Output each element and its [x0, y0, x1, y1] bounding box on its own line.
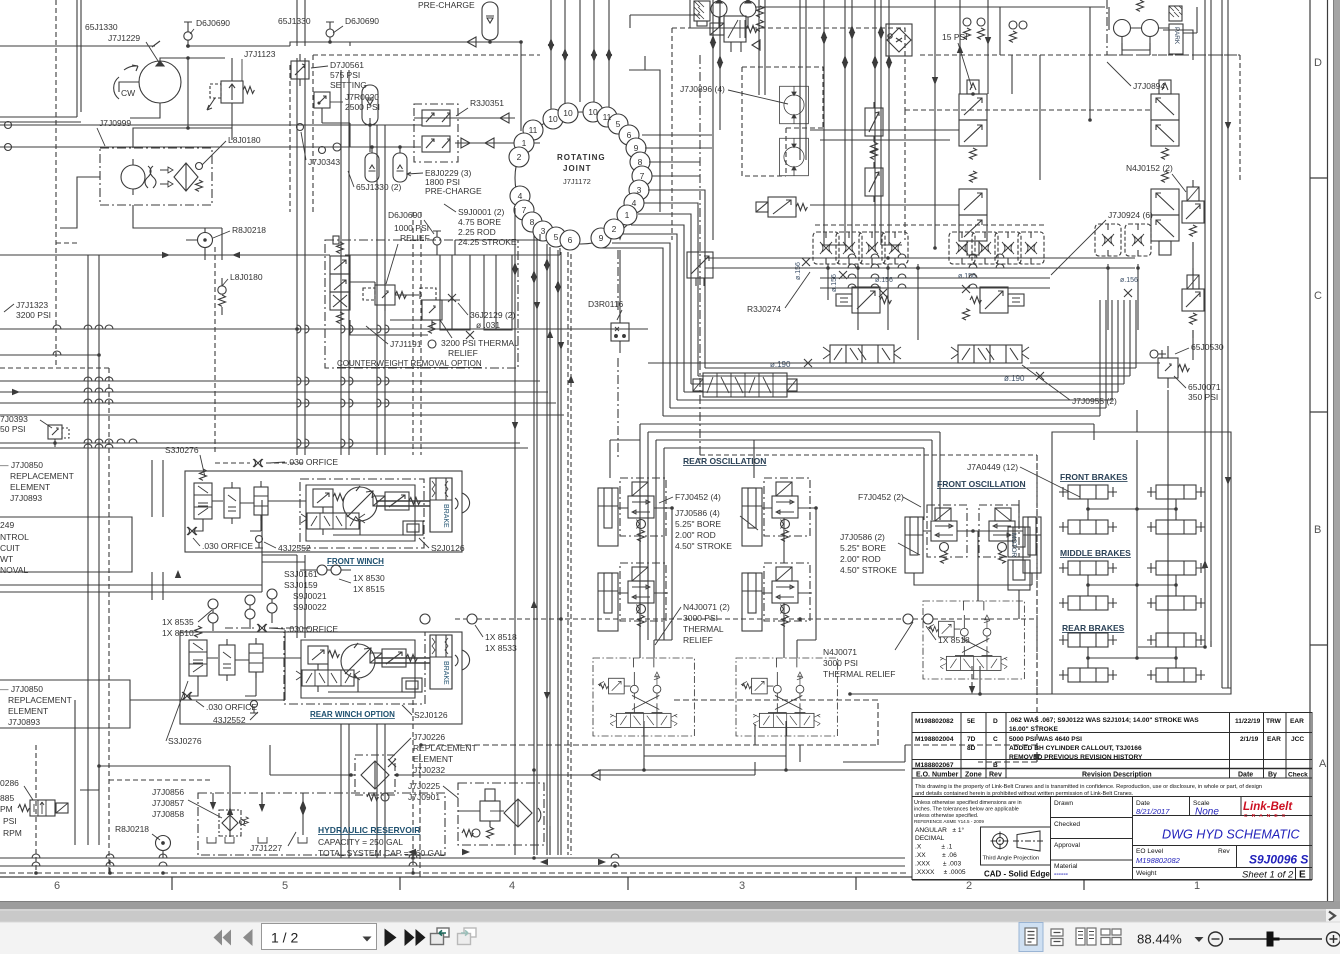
svg-text:65J1330: 65J1330 [278, 16, 311, 26]
svg-text:S9J0096 S: S9J0096 S [1249, 853, 1308, 867]
pump [343, 487, 377, 521]
15 PSI check pair [963, 18, 971, 26]
second valve below right col [836, 287, 891, 313]
stack valve left [330, 236, 350, 323]
filter diamond in box (top) [886, 24, 912, 56]
reservoir box J7J1227 with filter [80, 766, 445, 855]
svg-text:.030 ORFICE: .030 ORFICE [287, 457, 338, 467]
svg-text:REPLACEMENT: REPLACEMENT [8, 695, 72, 705]
svg-text:Sheet 1 of 2: Sheet 1 of 2 [1242, 870, 1294, 881]
sheet outer edge right [1327, 0, 1329, 901]
spring stack right of it [757, 6, 764, 17]
svg-text:1: 1 [1194, 880, 1200, 892]
svg-text:FRONT OSCILLATION: FRONT OSCILLATION [937, 479, 1026, 489]
zone ticks right [1310, 178, 1328, 645]
wires relief to joint [414, 113, 515, 123]
solenoid valve mid-left [756, 197, 807, 217]
wire bundle from motors to valves [810, 130, 959, 245]
svg-text:J7J1229: J7J1229 [108, 33, 140, 43]
top mid dashed manifold frame [672, 28, 905, 240]
wire left dashed riser [0, 0, 110, 619]
svg-text:885: 885 [0, 793, 14, 803]
svg-text:4: 4 [518, 191, 523, 201]
front osc left unit [905, 505, 978, 573]
check L8J0180 lower [218, 278, 226, 315]
svg-text:10: 10 [548, 114, 558, 124]
svg-text:DECIMAL: DECIMAL [915, 835, 945, 842]
svg-text:E: E [1299, 870, 1306, 881]
svg-text:ANGULAR ± 1°: ANGULAR ± 1° [915, 826, 964, 834]
svg-text:L8J0180: L8J0180 [230, 272, 263, 282]
svg-text:M198802082: M198802082 [915, 718, 954, 725]
svg-text:JOINT: JOINT [563, 164, 592, 173]
svg-text:5000 PSI WAS 4640 PSI: 5000 PSI WAS 4640 PSI [1009, 736, 1082, 743]
svg-text:1X 8535: 1X 8535 [162, 617, 194, 627]
svg-text:3200 PSI THERMAL: 3200 PSI THERMAL [441, 338, 519, 348]
svg-text:6: 6 [54, 880, 60, 892]
orifice row with dashes [813, 225, 1045, 264]
R3J0351 dual relief block [414, 0, 1030, 162]
svg-text:2: 2 [612, 224, 617, 234]
table h lines [912, 733, 1312, 797]
svg-text:D: D [993, 718, 998, 725]
accumulator J7R0020 capsule [362, 85, 378, 125]
svg-text:1X 8510: 1X 8510 [162, 628, 194, 638]
verticals through hump rows [828, 264, 1138, 340]
right cluster connect to brakes trunk [1138, 242, 1231, 688]
last page btn [405, 929, 415, 946]
main block dividers [1051, 797, 1133, 881]
second staircase tier to lower area [640, 424, 1094, 640]
thermal relief 3200 [420, 288, 442, 348]
second pair circles right on dashed bus [903, 614, 913, 624]
dashed pilot lines bottom-left [109, 619, 213, 874]
wire: vertical trunk pair right of joint [820, 140, 950, 245]
svg-text:1: 1 [522, 138, 527, 148]
svg-text:This drawing is the property o: This drawing is the property of Link-Bel… [915, 784, 1262, 790]
svg-text:NOVAL: NOVAL [0, 565, 28, 575]
65J0530 + 65J0071 350psi relief [1150, 346, 1189, 388]
cylinders S9J0001 [440, 255, 470, 330]
svg-text:FRONT BRAKES: FRONT BRAKES [1060, 472, 1128, 482]
svg-text:4: 4 [632, 198, 637, 208]
right long verticals [1205, 0, 1228, 688]
joint outgoing bottom fan to right-down [600, 190, 705, 416]
third angle projection icon [991, 831, 1045, 851]
svg-text:10: 10 [588, 107, 598, 117]
svg-text:J7J0586 (2): J7J0586 (2) [840, 532, 885, 542]
svg-text:4.75 BORE: 4.75 BORE [458, 217, 501, 227]
svg-text:J7J0924 (6): J7J0924 (6) [1108, 210, 1153, 220]
J7R0020 valve [314, 92, 970, 320]
svg-text:J7J0232: J7J0232 [413, 765, 445, 775]
svg-text:6: 6 [627, 130, 632, 140]
wires connecting center bundle down [534, 770, 550, 855]
next page btn [385, 929, 397, 947]
gauge R8J0218 [198, 233, 213, 248]
svg-text:M198802082: M198802082 [1136, 856, 1181, 865]
svg-text:R3J0351: R3J0351 [470, 98, 504, 108]
svg-text:2.00" ROD: 2.00" ROD [675, 530, 716, 540]
svg-text:WT: WT [0, 554, 13, 564]
svg-text:NTROL: NTROL [0, 532, 29, 542]
svg-text:.XXX ± .003: .XXX ± .003 [915, 861, 961, 868]
svg-text:RPM: RPM [3, 828, 22, 838]
wire pump outlet [130, 58, 225, 118]
top motor circles pair [711, 1, 727, 17]
svg-text:5: 5 [282, 880, 288, 892]
junction dots sprinkle [186, 40, 1207, 868]
svg-text:R3J0274: R3J0274 [747, 304, 781, 314]
svg-text:S3J0276: S3J0276 [168, 736, 202, 746]
D6J0690 node [433, 237, 441, 245]
svg-text:J7J0893: J7J0893 [8, 717, 40, 727]
svg-text:50 PSI: 50 PSI [0, 424, 26, 434]
svg-text:M198802004: M198802004 [915, 736, 954, 743]
front winch assembly S2J0126 [185, 459, 470, 552]
svg-text:J7J1172: J7J1172 [563, 177, 591, 186]
svg-text:2/1/19: 2/1/19 [1240, 736, 1259, 743]
page input [262, 924, 377, 950]
svg-text:MOTOR: MOTOR [1010, 533, 1017, 557]
horizontal scrollbar track [0, 909, 1340, 922]
svg-text:.XXXX ± .0005: .XXXX ± .0005 [915, 869, 966, 876]
right solenoid valve mid [970, 287, 1024, 313]
svg-text:DWG HYD SCHEMATIC: DWG HYD SCHEMATIC [1162, 828, 1301, 842]
svg-text:3000 PSI: 3000 PSI [683, 613, 718, 623]
wire: top cluster horizontals [630, 7, 1105, 55]
svg-text:------: ------ [1054, 871, 1069, 878]
svg-text:F7J0452 (2): F7J0452 (2) [858, 492, 904, 502]
top middle hump bus rows [705, 254, 1140, 288]
svg-text:PSI: PSI [3, 816, 17, 826]
D7J0561 valve [291, 54, 309, 86]
svg-text:CW: CW [121, 88, 135, 98]
svg-text:REFERENCE ASME Y14.5 - 2009: REFERENCE ASME Y14.5 - 2009 [914, 819, 984, 824]
bottom frame line [0, 876, 912, 878]
orifice 36J2129 [448, 294, 456, 302]
right orifice row [949, 232, 975, 264]
svg-text:Date: Date [1238, 772, 1253, 779]
svg-text:43J2552: 43J2552 [278, 543, 311, 553]
svg-text:By: By [1268, 772, 1277, 779]
svg-text:J7J0226: J7J0226 [413, 732, 445, 742]
svg-text:16.00" STROKE: 16.00" STROKE [1009, 726, 1059, 733]
svg-text:N4J0071 (2): N4J0071 (2) [683, 602, 730, 612]
svg-text:Approval: Approval [1054, 842, 1081, 849]
svg-text:1000 PSI: 1000 PSI [394, 223, 429, 233]
svg-text:5E: 5E [967, 718, 976, 725]
filter J7J0226 [345, 755, 409, 801]
svg-text:JCC: JCC [1291, 736, 1304, 743]
svg-text:J7J1227: J7J1227 [250, 843, 282, 853]
third angle box [981, 827, 1051, 865]
pump J7J1229 [139, 61, 181, 103]
bottom arrows pairs [408, 849, 416, 855]
mirrored motors/valves [1151, 80, 1179, 159]
gauge R8J0218 bottom [156, 836, 171, 851]
svg-text:HYDRAULIC RESERVOIR: HYDRAULIC RESERVOIR [318, 825, 420, 835]
svg-text:D6J0690: D6J0690 [196, 18, 230, 28]
svg-text:5.25" BORE: 5.25" BORE [840, 543, 886, 553]
svg-text:TRW: TRW [1266, 718, 1282, 725]
svg-text:2.25 ROD: 2.25 ROD [458, 227, 496, 237]
svg-text:PM: PM [0, 804, 13, 814]
rear osc bottom wires [598, 721, 905, 770]
svg-text:Link-Belt: Link-Belt [1243, 801, 1293, 813]
svg-text:M188802067: M188802067 [915, 762, 954, 769]
svg-text:R8J0218: R8J0218 [232, 225, 266, 235]
clutch [455, 493, 470, 513]
svg-text:D6J0690: D6J0690 [388, 210, 422, 220]
left vertical feeders down [88, 255, 99, 660]
svg-text:2.00" ROD: 2.00" ROD [840, 554, 881, 564]
svg-text:ø.156: ø.156 [831, 274, 838, 292]
svg-text:EAR: EAR [1267, 736, 1281, 743]
svg-text:11: 11 [529, 125, 538, 135]
svg-text:249: 249 [0, 520, 14, 530]
svg-text:9: 9 [634, 143, 639, 153]
left-middle long horizontal buses [0, 248, 560, 255]
motors dashed enclosure [742, 67, 823, 176]
svg-text:ROTATING: ROTATING [557, 153, 606, 162]
svg-text:Third Angle Projection: Third Angle Projection [983, 856, 1040, 862]
svg-text:Revision Description: Revision Description [1082, 772, 1152, 779]
directional valves row y354 [823, 345, 901, 363]
svg-text:RELIEF: RELIEF [683, 635, 713, 645]
D6J0690 node mid [326, 29, 334, 37]
svg-text:3: 3 [541, 226, 546, 236]
svg-text:ELEMENT: ELEMENT [8, 706, 48, 716]
svg-text:MIDDLE BRAKES: MIDDLE BRAKES [1060, 548, 1131, 558]
viewer right strip [1333, 0, 1340, 954]
rear osc right unit pair [742, 478, 812, 546]
hatched block top [694, 1, 710, 26]
svg-text:J7J0999: J7J0999 [99, 118, 131, 128]
svg-text:Material: Material [1054, 863, 1078, 870]
svg-text:4: 4 [509, 880, 515, 892]
svg-text:A: A [1319, 758, 1327, 770]
prev page btn [243, 929, 253, 946]
wire left double riser [0, 0, 81, 122]
svg-text:11/22/19: 11/22/19 [1235, 718, 1261, 725]
left vertical bundle x295-420 [297, 0, 305, 46]
left small valves [194, 469, 212, 519]
svg-text:E.O. Number: E.O. Number [916, 772, 959, 779]
svg-text:9: 9 [599, 233, 604, 243]
svg-text:PRE-CHARGE: PRE-CHARGE [425, 186, 482, 196]
svg-text:8: 8 [638, 157, 643, 167]
svg-text:L8J0180: L8J0180 [228, 135, 261, 145]
svg-text:65J1330 (2): 65J1330 (2) [356, 182, 402, 192]
svg-text:SETTING: SETTING [330, 80, 367, 90]
svg-text:ø.156: ø.156 [795, 262, 802, 280]
svg-text:15 PSI: 15 PSI [942, 32, 968, 42]
orifice above rear winch [257, 624, 267, 632]
svg-text:350 PSI: 350 PSI [1188, 392, 1218, 402]
counterweight removal big wire down [521, 42, 623, 321]
svg-text:S3J0276: S3J0276 [165, 445, 199, 455]
svg-text:5: 5 [616, 119, 621, 129]
pilot dashed vertical x215 [214, 247, 216, 455]
J7J0856 labels + suction strainers [152, 787, 184, 819]
svg-text:J7J0955 (2): J7J0955 (2) [1072, 396, 1117, 406]
svg-text:RELIEF: RELIEF [448, 348, 478, 358]
front osc manifold [923, 601, 1024, 679]
svg-text:1 / 2: 1 / 2 [271, 930, 298, 946]
svg-text:5.25" BORE: 5.25" BORE [675, 519, 721, 529]
svg-text:3: 3 [637, 185, 642, 195]
svg-text:.X ± .1: .X ± .1 [915, 844, 953, 851]
svg-text:Weight: Weight [1136, 870, 1157, 877]
svg-text:S2J0126: S2J0126 [414, 710, 448, 720]
svg-text:BRAKE: BRAKE [442, 504, 449, 528]
svg-text:BRAKE: BRAKE [442, 661, 449, 685]
rear osc left unit pair [598, 478, 668, 546]
svg-text:CAD - Solid Edge: CAD - Solid Edge [984, 870, 1050, 879]
solenoid valve N-J0286 [18, 800, 68, 816]
orifice top [253, 459, 263, 467]
node D6J0690 top [184, 32, 192, 40]
second N4J0152 valve lower [1182, 268, 1204, 338]
svg-text:ø.190: ø.190 [1004, 374, 1025, 383]
bottom circle 43J2552 [256, 536, 263, 543]
park brake assembly J7J0894 [1107, 0, 1240, 55]
svg-text:24.25 STROKE: 24.25 STROKE [458, 237, 517, 247]
rotating joint J7J1172 [515, 112, 647, 244]
brake connectors [1088, 440, 1176, 520]
svg-text:8: 8 [530, 217, 535, 227]
next view icon (disabled) [458, 928, 477, 945]
svg-text:J7A0449 (12): J7A0449 (12) [967, 462, 1018, 472]
svg-text:J7J0586 (4): J7J0586 (4) [675, 508, 720, 518]
svg-text:3: 3 [739, 880, 745, 892]
svg-text:65J1330: 65J1330 [85, 22, 118, 32]
svg-text:J7J0894: J7J0894 [1133, 81, 1165, 91]
relief 1000psi [363, 279, 406, 311]
svg-text:THERMAL: THERMAL [683, 624, 724, 634]
svg-text:2: 2 [517, 152, 522, 162]
svg-text:C: C [1314, 290, 1322, 302]
svg-text:4.50" STROKE: 4.50" STROKE [675, 541, 732, 551]
solenoid valve right [373, 492, 420, 510]
svg-text:THERMAL RELIEF: THERMAL RELIEF [823, 669, 895, 679]
svg-text:— J7J0850: — J7J0850 [0, 684, 43, 694]
header row thicker [912, 768, 1312, 770]
svg-text:REAR BRAKES: REAR BRAKES [1062, 623, 1125, 633]
nested staircase right (connecting top manifold to lower distribution) [663, 368, 1136, 416]
accumulator 65J1330 (top one) [482, 2, 498, 40]
bumps where bundle crosses buses [297, 325, 389, 447]
N4J0071 label [683, 602, 730, 645]
svg-text:— J7J0850: — J7J0850 [0, 460, 43, 470]
svg-text:S9J0022: S9J0022 [293, 602, 327, 612]
svg-text:1X 8533: 1X 8533 [485, 643, 517, 653]
svg-text:D7J0561: D7J0561 [330, 60, 364, 70]
viewer bottom dark band [0, 901, 1340, 909]
svg-text:inches. The tolerances below: inches. The tolerances below are applica… [914, 807, 1019, 813]
svg-text:J7J0896 (4): J7J0896 (4) [680, 84, 725, 94]
dashed enclosure bottom [420, 700, 878, 745]
svg-text:PRE-CHARGE: PRE-CHARGE [418, 0, 475, 10]
svg-text:CAPACITY = 250 GAL: CAPACITY = 250 GAL [318, 837, 403, 847]
svg-text:B: B [993, 762, 998, 769]
svg-text:.030 ORFICE: .030 ORFICE [206, 702, 257, 712]
svg-text:C R A N E S: C R A N E S [1244, 813, 1287, 819]
continuous layout [1051, 929, 1063, 946]
0.190 bus line [648, 362, 1160, 364]
svg-text:5: 5 [554, 232, 559, 242]
svg-text:6: 6 [568, 235, 573, 245]
two page continuous layout [1101, 929, 1121, 945]
svg-text:J7J1123: J7J1123 [244, 49, 276, 59]
svg-text:D: D [1314, 57, 1322, 69]
svg-text:3200 PSI: 3200 PSI [16, 310, 51, 320]
svg-text:.030 ORFICE: .030 ORFICE [287, 624, 338, 634]
svg-text:ELEMENT: ELEMENT [10, 482, 50, 492]
wires [192, 501, 360, 535]
svg-text:N4J0152 (2): N4J0152 (2) [1126, 163, 1173, 173]
svg-text:43J2552: 43J2552 [213, 715, 246, 725]
svg-text:D6J0690: D6J0690 [345, 16, 379, 26]
wire filter line [270, 745, 755, 780]
dashed pilot frame [290, 55, 540, 212]
joint satellites left arc [509, 102, 652, 250]
svg-text:TOTAL SYSTEM CAP = 360 GAL: TOTAL SYSTEM CAP = 360 GAL [318, 848, 445, 858]
svg-text:F7J0452 (4): F7J0452 (4) [675, 492, 721, 502]
svg-text:CUIT: CUIT [0, 543, 20, 553]
svg-text:Zone: Zone [965, 772, 982, 779]
wire top bus y42 [290, 37, 521, 47]
svg-text:J7J0857: J7J0857 [152, 798, 184, 808]
two page layout [1076, 928, 1096, 945]
top small solenoid valve [710, 16, 757, 52]
accumulators E8J0229 [365, 147, 379, 182]
single page layout (active) [1019, 923, 1043, 952]
svg-text:36J2129 (2): 36J2129 (2) [470, 310, 516, 320]
svg-text:ADDED BH CYLINDER CALLOUT, T3J: ADDED BH CYLINDER CALLOUT, T3J0166 [1009, 745, 1142, 752]
sheet inner frame right [1309, 0, 1311, 880]
svg-text:.XX ± .06: .XX ± .06 [915, 852, 957, 859]
svg-text:RELIEF: RELIEF [400, 233, 430, 243]
svg-text:R8J0218: R8J0218 [115, 824, 149, 834]
misc risers at bottom right of reservoir [755, 724, 905, 762]
svg-text:Drawn: Drawn [1054, 800, 1073, 807]
svg-text:65J0071: 65J0071 [1188, 382, 1221, 392]
first page btn [223, 930, 232, 946]
svg-text:Check: Check [1288, 772, 1308, 779]
joint lower-left lines [515, 208, 561, 855]
svg-text:S9J0021: S9J0021 [293, 591, 327, 601]
svg-text:COUNTERWEIGHT REMOVAL OPTION: COUNTERWEIGHT REMOVAL OPTION [337, 359, 482, 368]
zone ticks bottom [172, 877, 1084, 890]
svg-text:ø.156: ø.156 [1120, 277, 1138, 284]
scrollbar right arrow [1329, 912, 1335, 921]
svg-text:2: 2 [966, 880, 972, 892]
orifice bottom left [187, 527, 197, 535]
svg-text:N4J0071: N4J0071 [823, 647, 857, 657]
svg-text:1X 8530: 1X 8530 [353, 573, 385, 583]
left bottom cut labels [0, 778, 22, 838]
joint feed lines above [551, 0, 609, 109]
svg-text:J7J0893: J7J0893 [10, 493, 42, 503]
svg-text:J7J1323: J7J1323 [16, 300, 48, 310]
arrows bundle above center [713, 0, 889, 245]
svg-text:7: 7 [640, 171, 645, 181]
strainer assembly J7J0225 [458, 783, 544, 845]
internal wires [350, 282, 460, 335]
rear osc left manifold [593, 658, 694, 736]
